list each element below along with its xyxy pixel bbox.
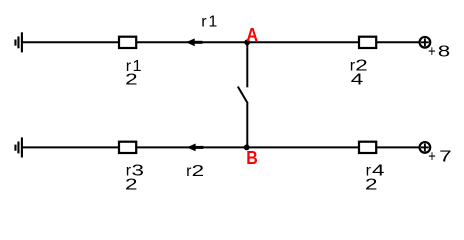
- wire ground to R3: [22, 146, 119, 148]
- resistor r1 (box): [119, 37, 136, 48]
- wire R3 to source, through node B: [137, 146, 420, 148]
- wire node A down to switch: [246, 42, 248, 87]
- resistor r2 (box): [359, 37, 376, 48]
- svg-text:+: +: [428, 148, 436, 165]
- current arrow r1 (points left): [186, 38, 203, 46]
- wire ground to R1: [22, 41, 119, 43]
- svg-text:7: 7: [439, 148, 452, 165]
- svg-text:2: 2: [125, 176, 138, 193]
- svg-text:r: r: [201, 13, 207, 30]
- svg-text:B: B: [246, 148, 258, 168]
- switch blade (open): [238, 87, 248, 104]
- ground (top left): [15, 32, 21, 52]
- svg-text:A: A: [246, 25, 258, 45]
- wire switch down to node B: [246, 104, 248, 148]
- svg-text:+: +: [428, 44, 436, 61]
- svg-text:8: 8: [438, 44, 451, 61]
- node B (junction dot): [244, 145, 250, 151]
- svg-text:2: 2: [365, 176, 378, 193]
- svg-text:1: 1: [208, 13, 217, 30]
- source +7 (circle with plus): [420, 142, 431, 153]
- node A (junction dot): [244, 39, 250, 45]
- svg-text:4: 4: [351, 71, 364, 88]
- resistor r4 (box): [359, 142, 376, 153]
- wire R1 to source, through node A: [137, 41, 420, 43]
- resistor r3 (box): [119, 142, 136, 153]
- svg-text:2: 2: [192, 163, 205, 180]
- ground (bottom left): [15, 137, 21, 157]
- source +8 (circle with plus): [420, 37, 431, 48]
- svg-text:2: 2: [125, 72, 138, 89]
- current arrow r2 (points left): [187, 144, 204, 152]
